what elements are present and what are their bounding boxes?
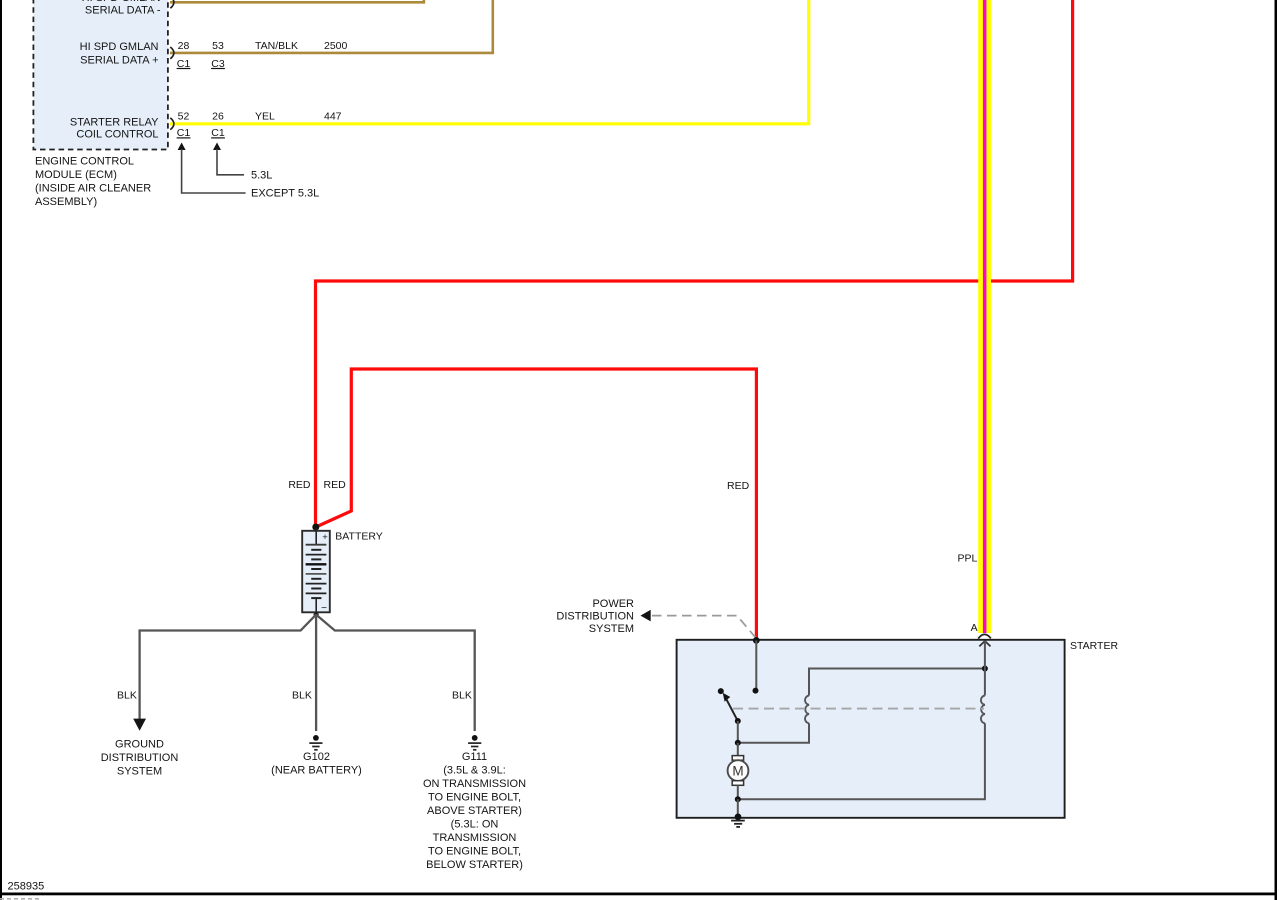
svg-text:TAN/BLK: TAN/BLK [255, 40, 298, 52]
svg-text:+: + [322, 532, 328, 543]
node switch pivot [735, 718, 741, 724]
svg-text:RED: RED [288, 479, 311, 491]
wire coil bottom to motor bottom [738, 723, 985, 799]
svg-text:SYSTEM: SYSTEM [117, 765, 162, 777]
junction battery negative [314, 612, 319, 617]
node switch feed contact [753, 688, 759, 694]
svg-text:(NEAR BATTERY): (NEAR BATTERY) [271, 765, 362, 777]
svg-text:ENGINE CONTROL: ENGINE CONTROL [35, 156, 134, 168]
svg-text:A: A [971, 622, 978, 634]
svg-text:YEL: YEL [255, 110, 275, 122]
wire stem to switch contact [755, 640, 757, 690]
page border bottom [0, 893, 1277, 896]
svg-text:BLK: BLK [292, 689, 312, 701]
wire TAN/BLK 2500 (row 2, exits top) [170, 0, 493, 53]
svg-text:TRANSMISSION: TRANSMISSION [433, 832, 517, 844]
svg-text:RED: RED [324, 479, 347, 491]
svg-text:TO ENGINE BOLT,: TO ENGINE BOLT, [428, 846, 521, 858]
wire PPL (magenta) [983, 0, 987, 633]
svg-text:DISTRIBUTION: DISTRIBUTION [101, 752, 179, 764]
label POWER DISTRIBUTION SYSTEM [556, 598, 634, 635]
wire RED battery feed A (exits top right, to battery +) [316, 0, 1073, 524]
svg-text:(INSIDE AIR CLEANER: (INSIDE AIR CLEANER [35, 183, 151, 195]
battery [302, 528, 330, 614]
svg-text:COIL CONTROL: COIL CONTROL [76, 129, 158, 141]
solenoid hold-in coil [981, 696, 985, 724]
label GROUND DISTRIBUTION SYSTEM [101, 738, 179, 777]
svg-text:DISTRIBUTION: DISTRIBUTION [556, 610, 634, 622]
ECM pin label HI SPD GMLAN SERIAL DATA + [80, 41, 159, 67]
label G111 caption block [423, 751, 526, 871]
arrow to power distribution system [641, 610, 651, 622]
svg-text:M: M [732, 763, 743, 778]
svg-text:POWER: POWER [592, 598, 634, 610]
svg-text:G111: G111 [462, 751, 487, 763]
svg-text:258935: 258935 [8, 880, 45, 892]
label G102 (NEAR BATTERY) [271, 751, 362, 777]
variant arrow EXCEPT 5.3L (pin 52) [178, 143, 320, 200]
svg-text:2500: 2500 [324, 40, 348, 52]
connector C1 (row 3, col B) [211, 127, 225, 139]
starter box [677, 640, 1065, 818]
starter case ground [731, 814, 745, 827]
page border right [1275, 0, 1278, 900]
wire hold-in coil down link [984, 669, 986, 696]
solenoid pull-in coil [805, 696, 809, 724]
svg-text:BLK: BLK [117, 689, 137, 701]
wire PPL highlight (yellow) [978, 0, 991, 633]
svg-text:RED: RED [727, 480, 750, 492]
junction starter feed [753, 637, 760, 644]
node switch upper contact [718, 688, 724, 694]
node solenoid terminal link [982, 666, 988, 672]
junction battery positive [312, 524, 319, 531]
svg-text:PPL: PPL [958, 552, 978, 564]
svg-text:−: − [321, 603, 327, 614]
svg-text:447: 447 [324, 110, 342, 122]
connector C1 (row 3, col A) [177, 127, 191, 139]
ground G111 [468, 735, 481, 750]
connector arc pin row 2 [170, 47, 174, 59]
wire pivot to pull-in coil [738, 721, 809, 743]
svg-text:TO ENGINE BOLT,: TO ENGINE BOLT, [428, 792, 521, 804]
node motor feed [735, 740, 741, 746]
svg-text:BATTERY: BATTERY [335, 530, 382, 542]
svg-text:(5.3L: ON: (5.3L: ON [451, 819, 499, 831]
svg-text:SYSTEM: SYSTEM [589, 623, 634, 635]
svg-text:BELOW STARTER): BELOW STARTER) [426, 859, 523, 871]
wire RED battery feed B (to starter solenoid) [317, 369, 756, 639]
svg-text:BLK: BLK [452, 689, 472, 701]
svg-text:HI SPD GMLAN: HI SPD GMLAN [80, 41, 159, 53]
connector C1 (row 2) [177, 58, 191, 70]
connector C3 (row 2) [211, 58, 225, 70]
svg-text:ON TRANSMISSION: ON TRANSMISSION [423, 778, 526, 790]
svg-text:HI SPD GMLAN: HI SPD GMLAN [82, 0, 161, 4]
svg-text:MODULE (ECM): MODULE (ECM) [35, 169, 117, 181]
variant arrow 5.3L (pin 26) [213, 143, 272, 182]
connector arc pin row 3 [170, 118, 174, 130]
svg-text:SERIAL DATA -: SERIAL DATA - [85, 4, 161, 16]
svg-text:G102: G102 [303, 751, 330, 763]
svg-text:GROUND: GROUND [115, 738, 164, 750]
svg-text:STARTER: STARTER [1070, 640, 1118, 652]
arrow to ground distribution system [133, 719, 146, 731]
ground G102 [309, 735, 322, 750]
svg-text:ASSEMBLY): ASSEMBLY) [35, 196, 97, 208]
svg-text:EXCEPT 5.3L: EXCEPT 5.3L [251, 188, 319, 200]
wire YEL 447 (row 3, exits top) [170, 0, 809, 124]
connector arc pin row 1 [170, 0, 174, 8]
terminal arc A [978, 634, 991, 638]
ECM module box (dashed, cut off at top) [33, 0, 168, 150]
terminal A arrow into starter [979, 641, 990, 669]
wire BLK negative splitter [140, 615, 317, 719]
svg-text:53: 53 [212, 40, 224, 52]
dashed pointer to starter feed junction [652, 616, 756, 638]
motor M [728, 743, 749, 799]
svg-text:STARTER RELAY: STARTER RELAY [70, 116, 159, 128]
svg-text:(3.5L & 3.9L:: (3.5L & 3.9L: [443, 765, 506, 777]
wire TAN serial data - (row 1, exits top) [170, 0, 424, 2]
ECM pin label STARTER RELAY COIL CONTROL [70, 116, 159, 140]
page border left [0, 0, 2, 900]
ECM caption ENGINE CONTROL MODULE (ECM) (INSIDE AIR CLEANER ASSEMBLY) [35, 156, 151, 209]
node motor negative [735, 796, 741, 802]
svg-text:SERIAL DATA +: SERIAL DATA + [80, 54, 158, 66]
svg-text:ABOVE STARTER): ABOVE STARTER) [427, 805, 522, 817]
wire motor to case ground [737, 799, 739, 817]
dashed solenoid link [733, 708, 984, 710]
svg-text:28: 28 [178, 40, 190, 52]
svg-text:52: 52 [178, 110, 190, 122]
switch blade with arrow [723, 693, 738, 721]
svg-text:26: 26 [212, 110, 224, 122]
bottom-left remnant [0, 898, 40, 900]
svg-text:5.3L: 5.3L [251, 170, 272, 182]
wire coil top link [809, 669, 985, 696]
